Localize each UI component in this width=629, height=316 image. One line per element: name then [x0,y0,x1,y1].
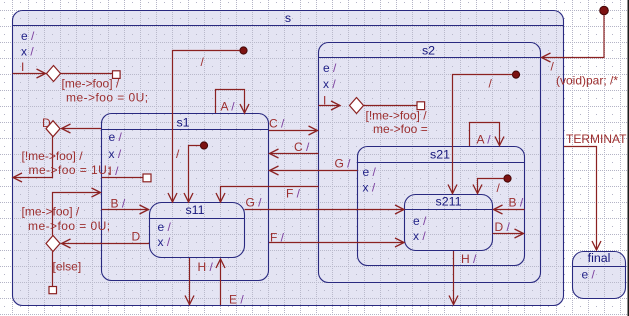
choice diamond of D(s11) [46,236,60,252]
transition I of s1 internal [102,177,144,179]
svg-text:s21: s21 [430,148,450,162]
svg-text:H /: H / [461,252,477,266]
svg-text:(void)par; /*: (void)par; /* [556,74,618,88]
svg-text:s: s [285,11,291,25]
svg-text:[!me->foo] /: [!me->foo] / [22,149,84,163]
svg-text:C /: C / [294,140,310,154]
svg-text:A /: A / [221,100,236,114]
transition s1-initial->s11 [189,146,201,203]
state final body fill [573,252,626,299]
wire choice to junction of s2 I [364,105,418,107]
transition E s->s11 [220,259,222,305]
transition B s1->s11 [102,209,149,211]
transition I of s into choice [13,73,46,75]
svg-text:e /: e / [582,268,596,282]
transition B s21->s211 [494,209,525,211]
initial pseudostate of s [240,47,247,54]
svg-text:e /: e / [363,165,377,179]
svg-text:me->foo = 0U;: me->foo = 0U; [28,219,111,233]
svg-text:final: final [588,251,611,265]
choice diamond of s I [47,66,61,82]
transition F s2->s11 [221,187,319,203]
junction square else [49,287,57,294]
choice diamond of s2 I [350,98,364,114]
transition A self-loop s21 [470,123,500,147]
svg-text:me->foo = 0U;: me->foo = 0U; [66,91,149,105]
initial pseudostate top-right [600,6,609,15]
svg-text:s211: s211 [436,195,462,209]
junction square of s2 I [417,102,425,110]
junction square of s I [113,71,121,79]
svg-text:x /: x / [158,235,171,249]
initial pseudostate of s1 [200,142,207,149]
wire choice down and to s edge [13,137,53,178]
svg-text:B /: B / [509,196,524,210]
svg-text:x /: x / [413,229,426,243]
transition s-initial->s11 [173,51,240,203]
transition C s1->s2 [269,130,318,132]
svg-text:e /: e / [21,29,35,43]
svg-text:s1: s1 [176,116,189,130]
transition I of s2 into choice [319,105,341,107]
transition H s11->s [189,258,191,305]
svg-text:s11: s11 [185,203,204,217]
transition s21-initial->s211 [478,179,504,194]
transition G s11->s211 [245,209,405,211]
svg-text:G /: G / [246,196,263,210]
svg-text:B /: B / [111,197,126,211]
wire choice up into s1 [53,193,101,236]
transition F s1->s211 [269,242,404,244]
svg-text:x /: x / [109,147,122,161]
svg-text:D: D [42,116,51,130]
svg-text:D: D [132,230,141,244]
transition D s11->choice [62,243,150,245]
state s11 border [150,203,245,258]
transition initial->s2 [542,15,605,58]
wire choice to junction [61,73,113,75]
svg-text:G /: G / [335,157,352,171]
svg-text:E /: E / [229,293,244,307]
svg-text:I: I [21,60,24,74]
transition s2-initial->s211 [453,75,513,194]
svg-text:me->foo = 1U;: me->foo = 1U; [29,163,112,177]
svg-text:H /: H / [198,260,214,274]
svg-text:F /: F / [286,187,301,201]
transition C s2->s1 [270,153,319,155]
initial pseudostate of s21 [504,175,511,182]
svg-text:A /: A / [477,133,492,147]
svg-text:me->foo =: me->foo = [373,122,428,136]
transition H s211->s [453,251,455,305]
svg-text:TERMINATE: TERMINATE [566,132,629,146]
state s211 border [405,195,493,251]
svg-text:e /: e / [109,130,123,144]
junction square of s1 I [143,174,151,182]
svg-text:[me->foo] /: [me->foo] / [22,205,80,219]
svg-text:D /: D / [495,220,511,234]
choice diamond of D(s1) [46,121,60,137]
svg-text:s2: s2 [422,44,435,58]
svg-text:e /: e / [158,220,172,234]
transition A self-loop s1 [216,90,245,114]
state s1 border [102,114,269,281]
state s21 border [358,147,525,266]
transition TERMINATE s->final [564,147,597,251]
svg-text:x /: x / [323,77,336,91]
svg-text:[me->foo] /: [me->foo] / [62,77,120,91]
state s2 border [319,43,541,283]
transition G s21->s1 [270,170,358,172]
svg-text:C /: C / [269,117,285,131]
svg-text:e /: e / [323,61,337,75]
wire choice down to else terminator [52,252,54,287]
svg-text:e /: e / [413,214,427,228]
state final border [573,252,626,299]
svg-text:[else]: [else] [53,260,82,274]
svg-text:x /: x / [21,45,34,59]
window edge right [628,0,629,316]
svg-text:x /: x / [363,181,376,195]
initial pseudostate of s2 [512,71,519,78]
transition D s1->choice [62,128,102,130]
svg-text:[!me->foo] /: [!me->foo] / [366,109,428,123]
svg-text:F /: F / [270,231,285,245]
transition D s211->s21 [493,233,524,235]
